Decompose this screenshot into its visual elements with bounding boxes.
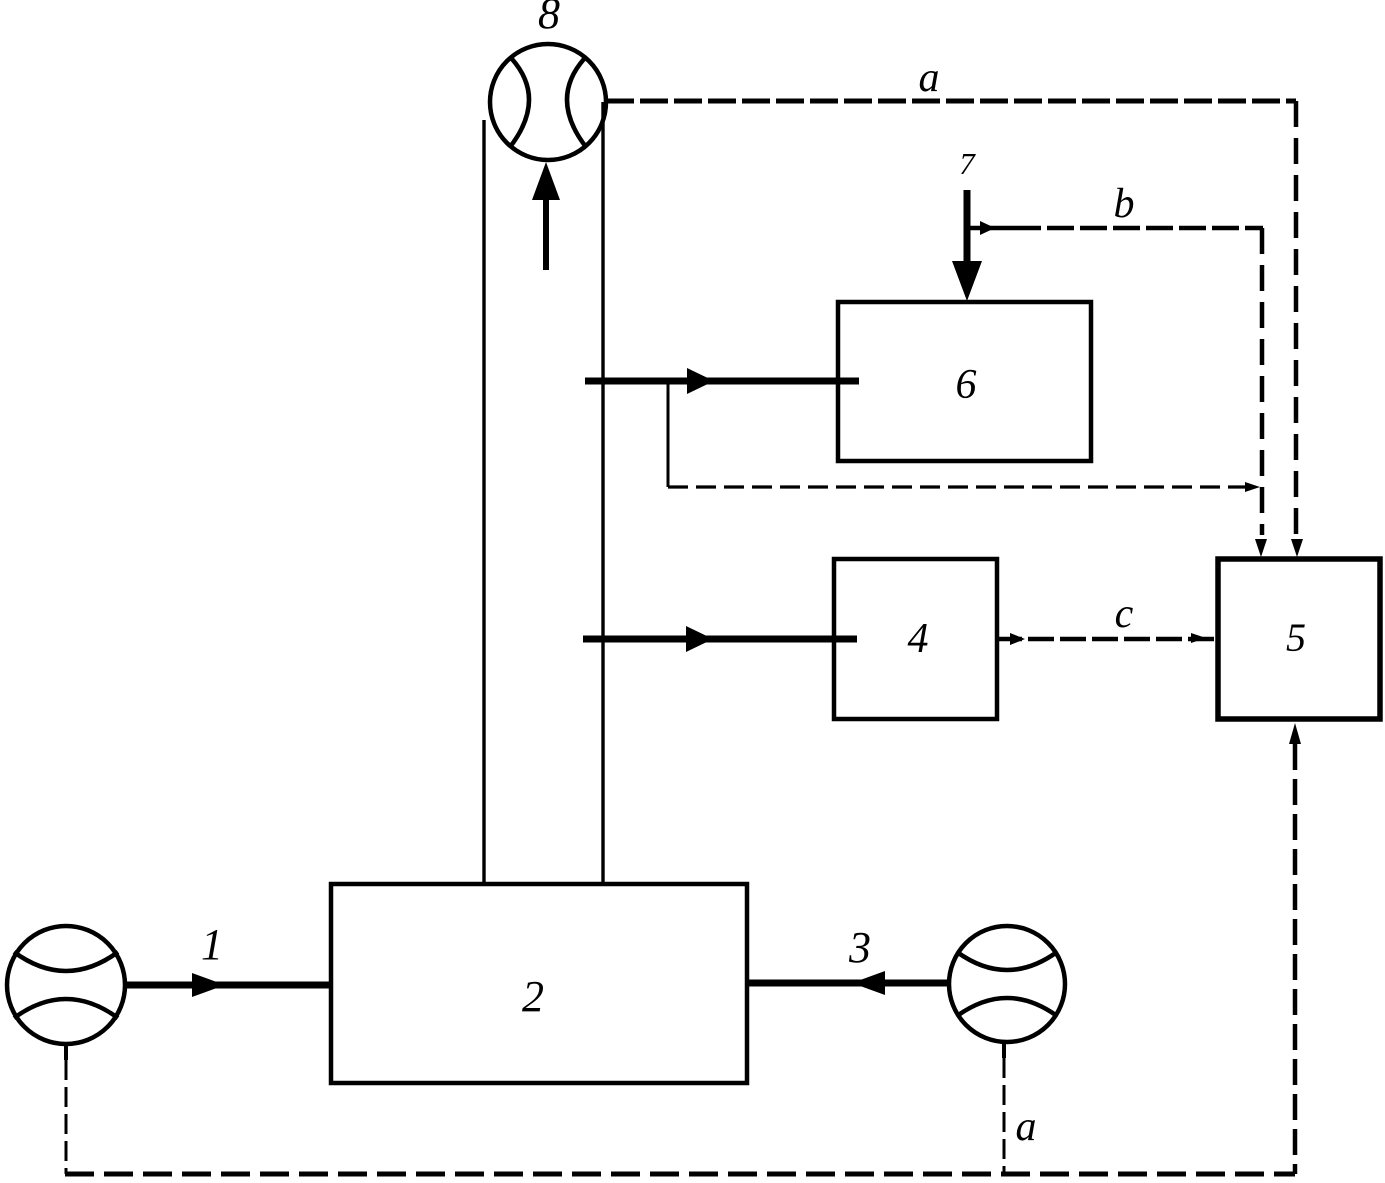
wire a top dashed	[606, 99, 1296, 104]
sample wire from feed 6 down	[667, 381, 670, 487]
svg-text:3: 3	[848, 923, 871, 972]
svg-text:a: a	[1016, 1104, 1037, 1150]
small arrow on c near 4	[1010, 633, 1025, 645]
arrow a into controller 5 bottom	[1289, 723, 1301, 744]
arrow a into controller 5 top	[1291, 539, 1303, 557]
svg-text:2: 2	[522, 972, 544, 1021]
bold feed arrow to 4	[583, 626, 857, 652]
flowmeter right	[949, 926, 1065, 1042]
arrow loop into wire b	[1245, 482, 1260, 492]
wire a bottom horizontal dashed	[65, 1172, 1295, 1177]
bold arrow 1	[127, 973, 331, 997]
box 6	[838, 302, 1091, 461]
blower 8	[490, 44, 606, 160]
svg-text:b: b	[1114, 181, 1135, 227]
svg-text:5: 5	[1286, 615, 1306, 660]
feed arrow 7	[952, 190, 982, 301]
svg-text:4: 4	[908, 616, 929, 662]
box 2	[331, 884, 747, 1083]
bold feed arrow to 6	[585, 368, 859, 394]
svg-text:a: a	[919, 55, 940, 101]
svg-text:7: 7	[959, 146, 976, 181]
drop wire from flowmeter right dashed	[1002, 1044, 1006, 1058]
box 4	[834, 559, 997, 719]
bold arrow 3	[747, 971, 947, 995]
flowmeter left	[7, 926, 125, 1044]
svg-text:c: c	[1115, 591, 1134, 637]
wire b vertical dashed	[1260, 228, 1265, 535]
arrow into blower 8	[532, 162, 560, 270]
drop wire from flowmeter left dashed	[64, 1045, 68, 1060]
duct right wire	[601, 102, 604, 884]
wire b horizontal solid stub	[967, 226, 1014, 231]
arrow b into controller 5 top	[1255, 539, 1267, 557]
small arrow on c near 5	[1191, 633, 1206, 643]
wire c dashed	[996, 637, 1218, 642]
loop wire dashed under 6	[668, 485, 1246, 488]
svg-text:6: 6	[956, 362, 977, 408]
wire a right vertical dashed	[1294, 101, 1299, 536]
wire b horizontal dashed	[1014, 226, 1263, 231]
wire b hook arrow	[980, 221, 995, 235]
wire a bottom right vertical dashed	[1293, 744, 1298, 1174]
svg-text:1: 1	[201, 920, 223, 969]
svg-text:8: 8	[538, 0, 560, 38]
controller 5	[1218, 559, 1380, 719]
duct left wire	[482, 120, 485, 884]
